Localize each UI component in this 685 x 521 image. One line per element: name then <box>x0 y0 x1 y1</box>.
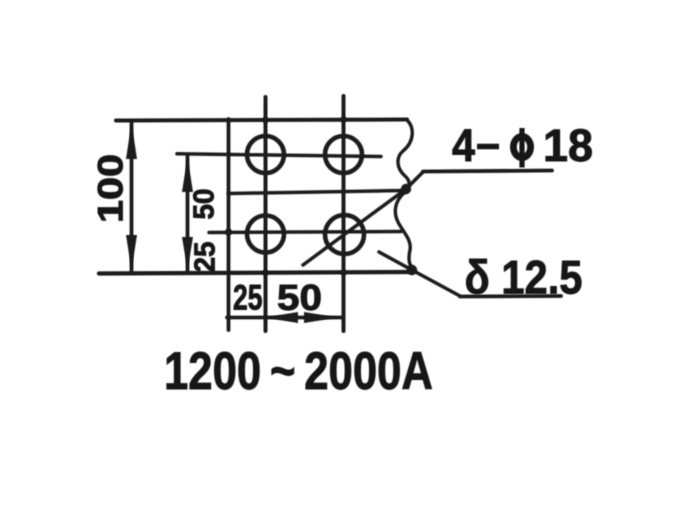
svg-text:25: 25 <box>233 279 263 318</box>
hole H4 bottom-right <box>325 215 364 254</box>
arrowhead right on bottom 50 dimension <box>304 312 338 323</box>
hole H1 top-left <box>247 136 284 173</box>
hole H3 bottom-left <box>247 216 284 253</box>
arrowhead up on 100 dimension <box>126 123 137 159</box>
svg-text:50: 50 <box>277 277 322 318</box>
svg-text:50: 50 <box>189 189 221 220</box>
plate top edge <box>116 120 407 121</box>
break (wavy) line right edge <box>395 120 413 270</box>
leader dot at plate edge (4-phi18) <box>401 184 411 194</box>
hole H2 top-right <box>325 136 362 173</box>
underline of delta 12.5 label <box>460 294 561 298</box>
plate bottom edge <box>99 272 410 274</box>
svg-text:4: 4 <box>452 120 475 171</box>
junction dot column2 / bottom edge <box>341 270 347 276</box>
junction dot left edge / bottom centerline <box>225 229 232 236</box>
svg-text:δ 12.5: δ 12.5 <box>465 251 583 304</box>
svg-text:25: 25 <box>190 242 222 273</box>
junction dot column2 / top edge <box>341 117 347 123</box>
hole column line 2 <box>342 96 346 331</box>
plate left edge <box>227 119 231 330</box>
leader line for delta 12.5 <box>379 252 460 296</box>
dimension line 100 <box>130 122 134 271</box>
middle plate line <box>228 191 404 194</box>
leader dot at plate edge (delta 12.5) <box>407 265 417 275</box>
dimension line 50/25 <box>186 156 190 271</box>
label 4-phi18: phi symbol <box>513 128 530 168</box>
bottom dimension line 25/50 <box>227 316 343 320</box>
arrowhead left on bottom 50 dimension <box>264 312 298 323</box>
bottom hole centerline <box>209 232 401 233</box>
leader line for 4-phi18 through hole H4 <box>303 172 423 265</box>
top hole centerline <box>177 154 381 157</box>
hole column line 1 <box>264 97 268 331</box>
underline of 4-phi18 label <box>423 171 552 172</box>
svg-text:18: 18 <box>543 120 593 171</box>
arrowhead down on 25 dimension <box>182 237 193 270</box>
label 4-phi18: minus dash <box>477 144 499 149</box>
arrowhead up on 50 dimension <box>182 157 193 192</box>
svg-text:1200 ~ 2000A: 1200 ~ 2000A <box>164 342 433 401</box>
arrowhead down on 100 dimension <box>126 235 137 270</box>
junction dot column1 / bottom edge <box>263 270 269 276</box>
svg-text:100: 100 <box>92 154 131 223</box>
junction dot column1 / top edge <box>263 117 269 123</box>
